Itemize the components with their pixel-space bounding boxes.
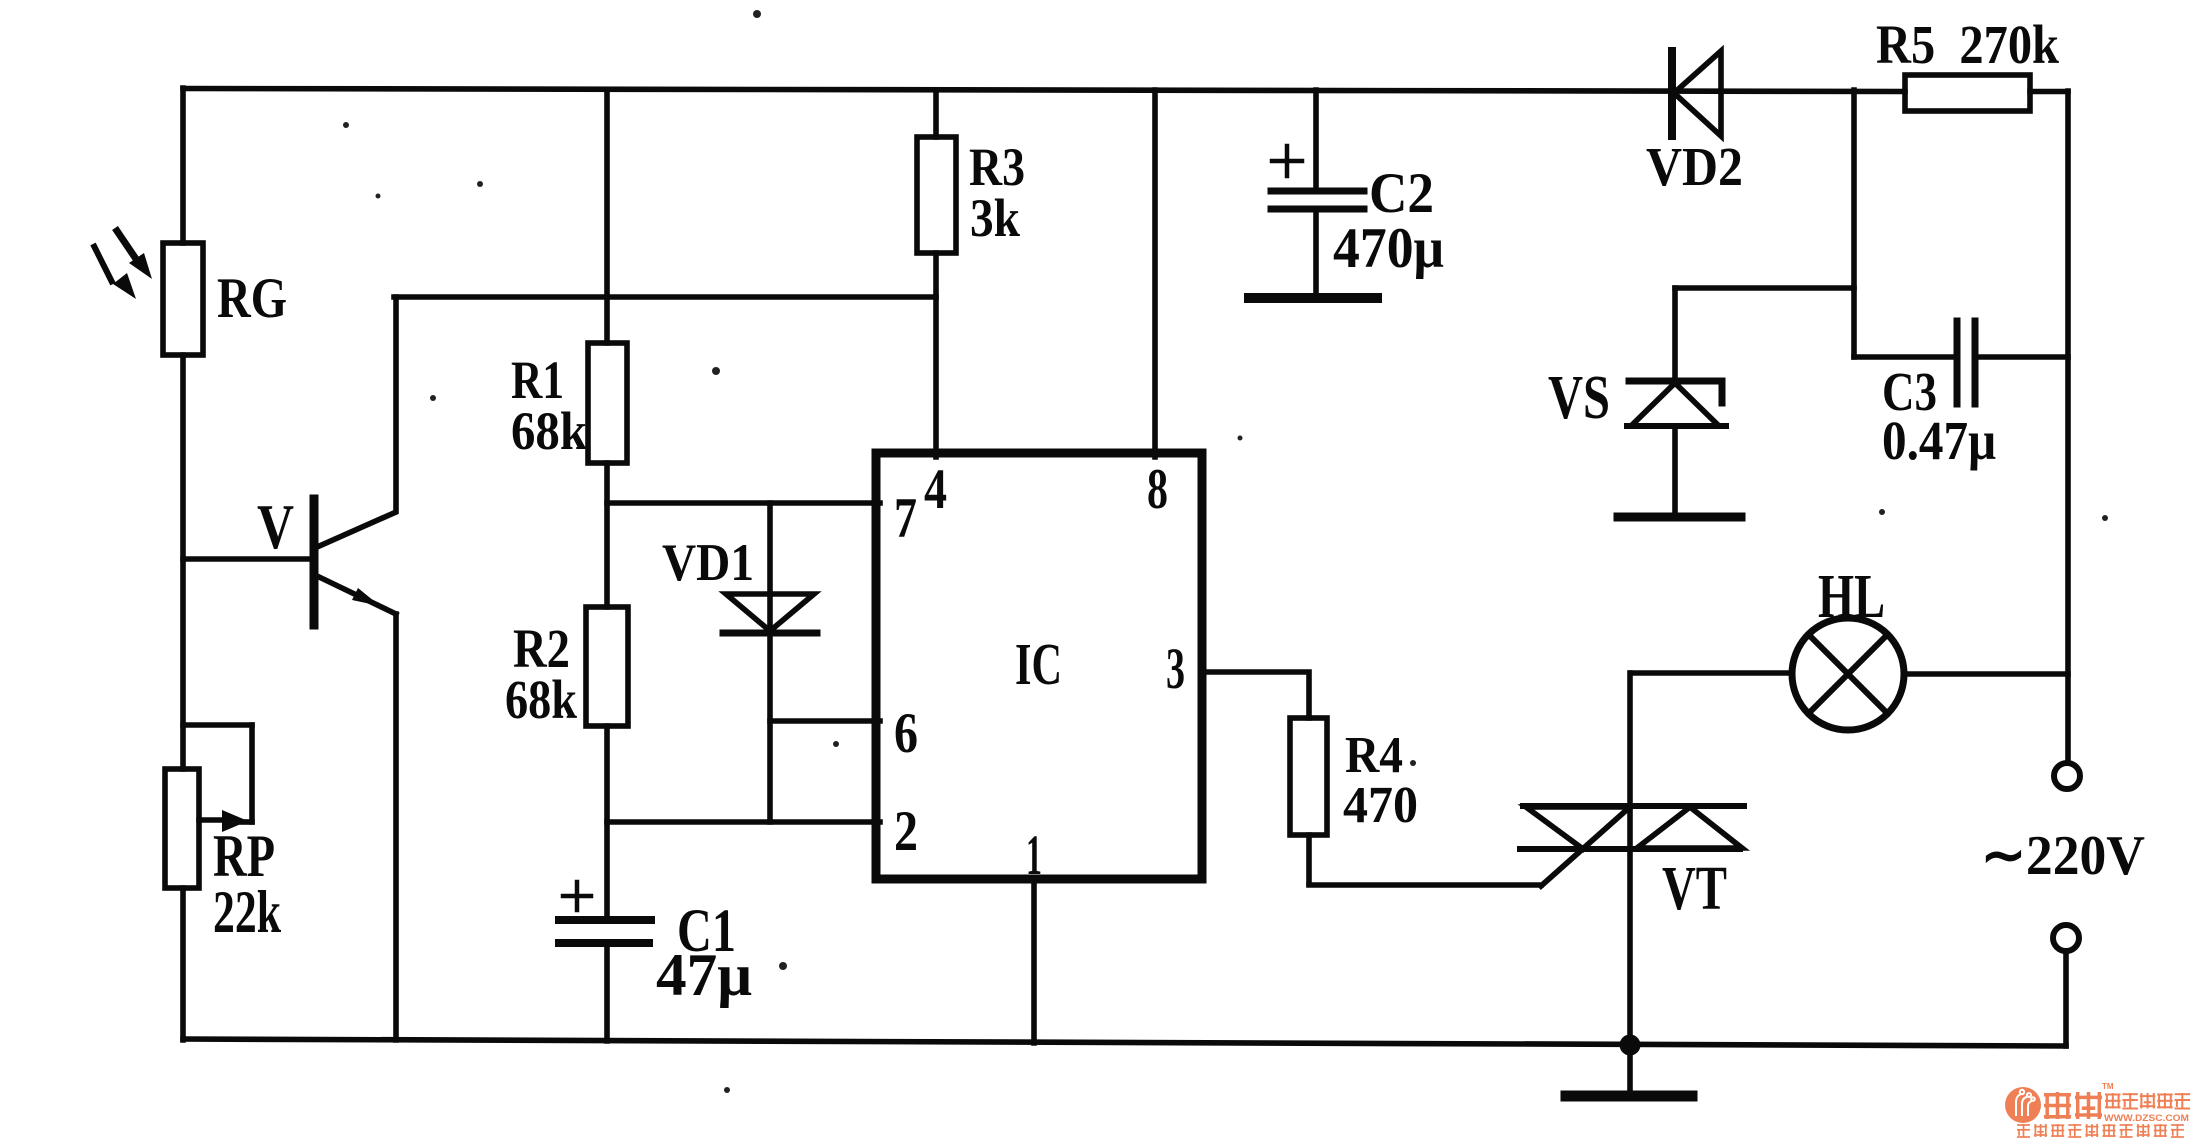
svg-text:RG: RG bbox=[217, 267, 287, 330]
svg-text:∼220V: ∼220V bbox=[1981, 825, 2145, 887]
svg-text:4: 4 bbox=[924, 458, 947, 521]
svg-text:2: 2 bbox=[894, 800, 918, 863]
svg-text:8: 8 bbox=[1147, 458, 1168, 521]
svg-text:R5 270k: R5 270k bbox=[1876, 14, 2059, 75]
svg-text:VT: VT bbox=[1662, 855, 1727, 923]
svg-text:47μ: 47μ bbox=[656, 942, 752, 1008]
svg-text:3k: 3k bbox=[970, 188, 1020, 248]
svg-text:6: 6 bbox=[894, 702, 918, 765]
svg-text:22k: 22k bbox=[213, 879, 281, 945]
svg-text:68k: 68k bbox=[505, 669, 577, 730]
svg-text:7: 7 bbox=[894, 487, 917, 550]
svg-text:470μ: 470μ bbox=[1333, 217, 1444, 280]
svg-text:68k: 68k bbox=[511, 401, 587, 461]
svg-text:TM: TM bbox=[2102, 1082, 2114, 1091]
svg-text:3: 3 bbox=[1166, 636, 1185, 701]
svg-text:0.47μ: 0.47μ bbox=[1882, 410, 1996, 471]
svg-text:1: 1 bbox=[1026, 824, 1042, 887]
svg-text:V: V bbox=[257, 491, 294, 562]
svg-text:WWW.DZSC.COM: WWW.DZSC.COM bbox=[2104, 1113, 2189, 1124]
svg-text:C2: C2 bbox=[1369, 162, 1434, 225]
svg-text:HL: HL bbox=[1818, 563, 1885, 631]
svg-text:470: 470 bbox=[1343, 777, 1418, 834]
svg-text:R4: R4 bbox=[1345, 727, 1403, 784]
svg-text:VD1: VD1 bbox=[662, 534, 754, 592]
svg-text:VD2: VD2 bbox=[1646, 136, 1743, 197]
svg-text:IC: IC bbox=[1015, 631, 1062, 697]
svg-text:VS: VS bbox=[1548, 364, 1610, 432]
